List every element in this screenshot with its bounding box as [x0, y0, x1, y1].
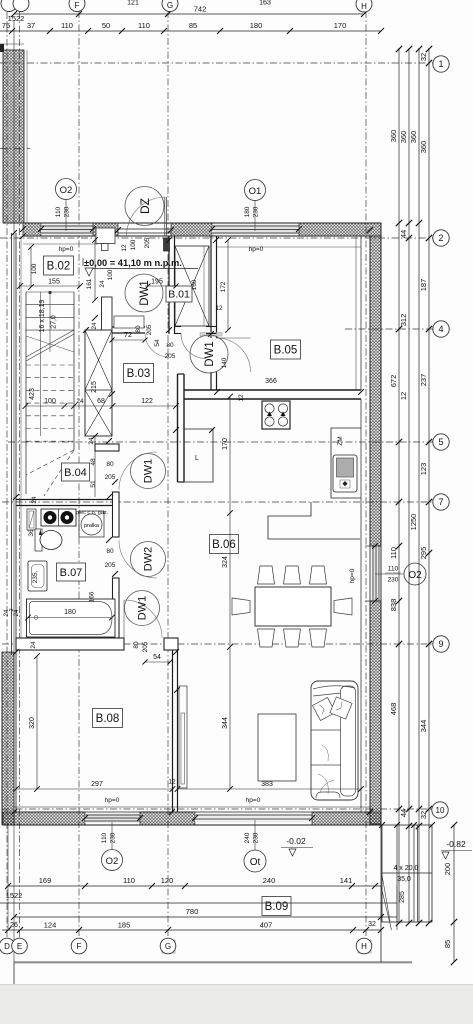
window label O2 top-left — [56, 179, 77, 200]
svg-text:320: 320 — [29, 717, 36, 729]
svg-text:H: H — [361, 942, 367, 951]
svg-text:68: 68 — [97, 398, 105, 405]
svg-text:120: 120 — [161, 876, 174, 885]
svg-text:B.01: B.01 — [168, 289, 190, 301]
room label B.09 — [262, 897, 291, 916]
grid circle 7 — [433, 494, 449, 510]
svg-text:344: 344 — [222, 717, 229, 729]
svg-text:360: 360 — [409, 131, 418, 144]
grid circle 5 — [433, 434, 449, 450]
svg-text:180: 180 — [244, 206, 251, 217]
svg-text:407: 407 — [260, 921, 273, 930]
svg-text:124: 124 — [44, 921, 57, 930]
grid circle 9 — [433, 636, 449, 652]
svg-text:205: 205 — [165, 353, 176, 360]
svg-text:185: 185 — [118, 921, 131, 930]
kitchen counter left L — [184, 429, 213, 482]
dim 161 vertical near entrance — [94, 240, 96, 300]
sofa seat divider 2 — [311, 764, 341, 766]
svg-text:51: 51 — [90, 480, 97, 488]
washing machine pralka — [79, 511, 104, 537]
kitchen stove — [262, 401, 290, 429]
svg-text:1250: 1250 — [409, 514, 418, 531]
dim 320 B.08 vertical — [36, 656, 38, 789]
grid circle D bottom — [0, 938, 15, 954]
bottom dim 780 row — [14, 916, 397, 918]
svg-text:G: G — [165, 942, 171, 951]
wall B.04-B.07 / B.06 vertical piece 1 — [113, 492, 120, 537]
grid line D vertical — [6, 12, 8, 938]
sofa back cushion along wall — [341, 686, 356, 796]
right dimension line c — [418, 48, 420, 923]
coffee table — [258, 714, 296, 781]
wall junction tick marks — [38, 226, 44, 232]
svg-text:2: 2 — [438, 233, 443, 243]
svg-text:4: 4 — [438, 324, 443, 334]
dim 344 living vertical — [229, 397, 231, 790]
staircase side rails — [25, 292, 27, 494]
window sill line B.02 — [23, 243, 98, 245]
top wall hatch segment 2 — [93, 223, 118, 236]
door panel wardrobe at B.06 side — [179, 686, 187, 788]
staircase dashed rays in B.04 — [26, 450, 74, 475]
svg-text:hp=0: hp=0 — [249, 246, 264, 253]
svg-text:O2: O2 — [106, 856, 119, 867]
svg-text:110: 110 — [389, 547, 398, 559]
svg-text:24: 24 — [14, 609, 20, 616]
drawing frame bottom edge — [14, 961, 412, 963]
svg-text:DW1: DW1 — [143, 459, 155, 483]
bottom dim chain row 1 — [8, 885, 381, 887]
svg-text:48: 48 — [90, 458, 97, 466]
svg-text:170: 170 — [334, 21, 347, 30]
room label B.06 — [210, 535, 239, 554]
grid circle 10 — [432, 802, 448, 818]
svg-text:F: F — [75, 1, 80, 10]
right dim slashes at grid rows — [396, 220, 402, 226]
grid line G vertical — [167, 11, 169, 938]
door label DW1 B.05 — [190, 335, 228, 373]
svg-text:360: 360 — [389, 130, 398, 143]
grid line 9 horizontal — [2, 643, 433, 645]
door niche at B.02/B.03 — [114, 316, 144, 328]
top wall hatch segment 3 — [171, 223, 212, 236]
door arc DW1 into B.04 — [119, 452, 157, 490]
dim 383 living bottom — [178, 788, 362, 790]
svg-text:37: 37 — [27, 21, 35, 30]
sofa seat creases — [318, 745, 334, 794]
svg-text:E: E — [17, 942, 22, 951]
dining chair bottom 3 — [310, 629, 327, 647]
svg-text:122: 122 — [141, 398, 153, 405]
left edge tick mark — [0, 44, 4, 52]
window label O2 right — [404, 563, 426, 585]
window O1 glazing — [212, 225, 299, 235]
door arc DW1 into B.05 — [217, 338, 251, 372]
long extent line at party wall — [13, 20, 15, 962]
svg-text:423: 423 — [29, 388, 36, 400]
grid circle H bottom — [358, 940, 371, 953]
svg-text:155: 155 — [48, 279, 60, 286]
chimney shaft cross lower — [85, 390, 112, 436]
svg-text:5: 5 — [438, 437, 443, 447]
steps top dim ticks near grid 10 — [394, 822, 400, 828]
bottom exterior wall hatch 3 — [312, 812, 381, 825]
svg-text:230: 230 — [110, 832, 117, 843]
svg-text:32: 32 — [419, 53, 428, 61]
svg-text:180: 180 — [250, 21, 263, 30]
corridor/kitchen wall vertical — [177, 374, 179, 482]
svg-text:DW1: DW1 — [139, 280, 151, 306]
svg-text:44: 44 — [399, 809, 408, 817]
svg-text:54: 54 — [153, 654, 161, 661]
dim 172 B.01 — [227, 240, 229, 330]
staircase treads upper flight — [26, 292, 74, 330]
right wall outer face — [380, 223, 382, 825]
window label Ot bottom — [244, 850, 266, 872]
svg-text:166: 166 — [89, 591, 96, 602]
svg-text:235,: 235, — [32, 570, 39, 583]
wall B.07/B.08 horizontal west — [16, 638, 124, 650]
svg-text:230: 230 — [253, 832, 260, 843]
svg-text:26: 26 — [10, 922, 18, 929]
right vertical line for bottom rows — [396, 886, 398, 930]
svg-text:10: 10 — [436, 806, 445, 815]
wall B.04/B.07 horizontal — [16, 499, 112, 501]
sofa cushion 1 — [313, 698, 336, 721]
grid line 1 horizontal — [0, 62, 433, 64]
svg-text:75: 75 — [2, 21, 10, 30]
dim 72 corridor — [112, 339, 145, 341]
svg-text:100: 100 — [130, 239, 137, 250]
grid line 5 horizontal — [8, 441, 433, 443]
room label B.03 — [124, 364, 154, 383]
svg-text:80: 80 — [166, 342, 174, 349]
top dimension chain row — [0, 30, 381, 32]
svg-text:1: 1 — [438, 59, 443, 69]
grid circle 4 — [433, 321, 449, 337]
door leaf gray B.01 — [200, 333, 222, 337]
sofa armrest top edge — [311, 222, 313, 224]
entrance door DZ swing arc — [127, 197, 166, 236]
svg-text:121: 121 — [127, 0, 139, 7]
svg-text:80: 80 — [135, 325, 142, 333]
bottom wall inner faces — [14, 806, 370, 808]
door arc B.03 from hall — [145, 333, 169, 357]
window label O2 bottom — [102, 850, 123, 871]
top partial grid circle D — [1, 0, 17, 12]
door label DW1 hall — [125, 274, 163, 312]
svg-text:163: 163 — [259, 0, 271, 7]
window O2 top-left glazing — [41, 225, 93, 235]
bottom dim 1522 row — [0, 902, 397, 904]
svg-text:80: 80 — [133, 641, 140, 649]
svg-text:4 x 20,0: 4 x 20,0 — [394, 865, 419, 872]
wall stub above shaft — [102, 297, 113, 330]
door arc DW2 into B.07 — [119, 540, 157, 578]
chimney shaft box — [85, 330, 112, 436]
grid circle G bottom — [162, 940, 175, 953]
svg-text:80: 80 — [106, 548, 114, 555]
svg-text:169: 169 — [39, 876, 52, 885]
grid line 10 horizontal — [2, 808, 433, 810]
wall B.01 bottom with door opening — [175, 326, 182, 328]
gray footer strip — [0, 984, 473, 1024]
svg-text:110: 110 — [61, 21, 73, 30]
wall B.01/B.05 upper — [210, 236, 212, 338]
svg-text:16 x 18,19: 16 x 18,19 — [39, 300, 46, 333]
right wall room-side lining — [360, 236, 362, 390]
svg-text:hp=0: hp=0 — [246, 797, 261, 804]
sofa bottom armrest — [316, 792, 340, 798]
svg-text:DZ: DZ — [138, 198, 152, 214]
svg-text:54: 54 — [154, 339, 161, 347]
svg-text:32: 32 — [419, 811, 428, 819]
wardrobe B.01 cross box — [175, 246, 209, 326]
diagonal connector bottom-right dims — [381, 886, 392, 930]
svg-text:9: 9 — [438, 639, 443, 649]
dim chain corridor B.03 y406 — [26, 405, 177, 407]
dim B.02 width 155 — [20, 285, 80, 287]
svg-text:12: 12 — [168, 779, 176, 786]
svg-text:205: 205 — [142, 641, 149, 652]
entrance door label DZ — [125, 187, 164, 226]
bottom dim chain row 26/124/185/407/32 — [2, 929, 381, 931]
wall hall/B.01 — [168, 236, 170, 334]
svg-text:B.02: B.02 — [47, 261, 71, 273]
svg-text:hp=0: hp=0 — [59, 246, 74, 253]
right outer dim line 200/85 — [453, 825, 455, 962]
dining chair top 3 — [310, 566, 327, 584]
svg-text:-0.82: -0.82 — [446, 839, 466, 849]
staircase treads lower flight dashed — [26, 365, 74, 441]
room label B.07 — [57, 563, 86, 581]
svg-text:85: 85 — [189, 21, 197, 30]
kitchen counter right along wall — [331, 428, 361, 498]
washbasin — [28, 561, 47, 591]
svg-text:DW2: DW2 — [143, 547, 155, 571]
svg-text:285: 285 — [399, 891, 406, 903]
grid circle 1 — [433, 56, 449, 72]
dining chair bottom 2 — [284, 629, 301, 647]
door swing arrow marker — [39, 529, 42, 535]
exterior steps tread lines — [396, 825, 398, 922]
svg-text:140: 140 — [221, 357, 228, 368]
svg-text:110: 110 — [55, 206, 62, 217]
svg-text:141: 141 — [340, 876, 353, 885]
toilet — [35, 529, 42, 551]
door arc from B.01 — [181, 334, 206, 359]
svg-text:B.07: B.07 — [60, 567, 83, 579]
right dimension line d — [428, 48, 430, 923]
grid line E vertical — [19, 12, 21, 938]
svg-text:230: 230 — [64, 206, 71, 217]
grid circle E bottom — [12, 938, 28, 954]
right exterior wall hatch upper — [370, 236, 381, 546]
svg-text:838: 838 — [389, 599, 398, 612]
gas boiler unit piec c.o. gaz — [41, 509, 76, 526]
svg-text:200: 200 — [443, 863, 452, 876]
right wall inner face — [369, 236, 371, 824]
wall stub B.04 east top — [95, 444, 119, 451]
svg-text:F: F — [77, 942, 82, 951]
grid line 2 horizontal — [0, 237, 433, 239]
terrace door Ot glazing — [195, 814, 312, 823]
staircase secondary diagonal — [26, 336, 74, 352]
window O2 right glazing — [372, 546, 380, 601]
svg-text:24: 24 — [91, 322, 98, 330]
svg-text:36: 36 — [28, 529, 35, 537]
neighbour party wall hatched top-left — [3, 50, 24, 223]
dining table — [255, 587, 331, 626]
svg-text:172: 172 — [220, 281, 227, 292]
level marker 0.00 — [85, 268, 93, 276]
kitchen wall under B.05 — [184, 389, 361, 391]
svg-text:-0.02: -0.02 — [286, 836, 306, 846]
top dimension row 742 — [14, 13, 364, 15]
svg-text:DW1: DW1 — [204, 341, 216, 367]
svg-text:110: 110 — [101, 832, 108, 843]
svg-text:O2: O2 — [60, 185, 73, 196]
svg-text:O2: O2 — [408, 570, 422, 581]
svg-text:205: 205 — [146, 324, 153, 335]
svg-text:240: 240 — [263, 876, 276, 885]
kitchen peninsula outline — [268, 502, 360, 539]
svg-text:383: 383 — [261, 781, 273, 788]
svg-text:G: G — [167, 1, 173, 10]
svg-text:24: 24 — [30, 641, 37, 649]
svg-text:187: 187 — [419, 279, 428, 292]
svg-text:240: 240 — [244, 832, 251, 843]
dining chair left — [232, 598, 250, 615]
svg-text:B.05: B.05 — [274, 345, 298, 357]
wall B.02 bottom / B.03 top — [110, 326, 145, 328]
window sill line B.05 — [217, 246, 361, 248]
terrace right edge line — [380, 825, 382, 962]
room label B.02 — [44, 256, 74, 275]
wall B.07/B.08 horizontal east piece — [164, 638, 178, 650]
svg-text:312: 312 — [399, 314, 408, 327]
svg-text:205: 205 — [105, 562, 116, 569]
svg-text:12: 12 — [238, 394, 245, 402]
svg-text:295: 295 — [419, 547, 428, 560]
svg-text:B.03: B.03 — [127, 368, 151, 380]
svg-text:85: 85 — [443, 940, 452, 948]
svg-text:24: 24 — [76, 398, 84, 405]
grid circle F bottom — [71, 938, 87, 954]
svg-text:672: 672 — [389, 375, 398, 388]
room label B.01 — [166, 286, 192, 302]
sofa seat divider 1 — [311, 729, 341, 731]
svg-text:123: 123 — [419, 463, 428, 476]
door label DW1 B.08 — [125, 591, 160, 626]
window O2 bottom glazing — [85, 814, 140, 823]
dining chair bottom 1 — [258, 629, 275, 647]
door label DW2 B.07 — [131, 542, 166, 577]
top wall hatch segment 1 — [23, 223, 41, 236]
sofa outline — [311, 681, 358, 800]
svg-text:110: 110 — [388, 566, 399, 573]
left vertical line for bottom rows — [7, 825, 9, 930]
svg-text:468: 468 — [389, 703, 398, 716]
sofa top backrest curve — [313, 686, 355, 689]
chimney shaft cross upper — [85, 330, 112, 390]
left exterior wall hatch lower — [2, 652, 14, 825]
svg-text:360: 360 — [419, 141, 428, 154]
sofa cushion 2 — [330, 697, 352, 719]
dining chair top 2 — [284, 566, 301, 584]
svg-text:195: 195 — [151, 279, 163, 286]
entrance door DZ leaf — [164, 197, 166, 236]
bottom wall outer face — [3, 824, 381, 826]
top partial grid circle F — [69, 0, 85, 12]
window label O1 top — [245, 180, 266, 201]
bathtub — [27, 599, 116, 637]
svg-text:hp=0: hp=0 — [349, 568, 356, 583]
svg-text:324: 324 — [222, 556, 229, 568]
staircase cut break double diagonal — [26, 330, 74, 357]
svg-text:hp=0: hp=0 — [105, 797, 120, 804]
right dimension line a — [398, 48, 400, 923]
top partial grid circle E — [13, 0, 29, 12]
dim chain B.04 24/48/51 — [94, 436, 96, 497]
grid line 4 horizontal — [345, 328, 433, 330]
exterior steps block — [382, 825, 432, 922]
svg-text:B.04: B.04 — [64, 467, 87, 479]
wall B.04-B.07 / B.06 vertical piece 2 — [113, 578, 120, 638]
svg-text:161: 161 — [86, 278, 93, 289]
dining chair right — [334, 598, 352, 615]
exterior steps landing line — [382, 872, 432, 874]
svg-text:237: 237 — [419, 374, 428, 387]
svg-text:12: 12 — [215, 305, 223, 312]
top partial grid circle H — [356, 0, 372, 12]
dim 297 B.08 bottom — [16, 788, 173, 790]
svg-text:24: 24 — [88, 437, 95, 445]
entrance jamb right — [164, 238, 170, 251]
svg-text:230: 230 — [253, 206, 260, 217]
kitchen sink — [333, 455, 357, 492]
svg-text:O1: O1 — [249, 186, 262, 197]
svg-text:297: 297 — [91, 781, 103, 788]
svg-text:780: 780 — [186, 907, 199, 916]
grid circle 2 — [433, 230, 449, 246]
svg-text:72: 72 — [124, 332, 132, 339]
svg-text:ZM: ZM — [337, 436, 344, 445]
neighbour wall inner lines — [26, 50, 28, 223]
door label DW1 B.04 — [131, 454, 166, 489]
bottom exterior wall hatch 2 — [140, 812, 195, 825]
svg-text:B.06: B.06 — [212, 539, 236, 551]
svg-text:pralka: pralka — [84, 523, 100, 529]
svg-text:360: 360 — [399, 131, 408, 144]
wall B.01/B.05 lower segment below door — [210, 372, 212, 390]
svg-text:205: 205 — [105, 474, 116, 481]
svg-text:35,0: 35,0 — [397, 876, 411, 883]
svg-text:27,0: 27,0 — [51, 315, 58, 329]
bottom exterior wall hatch 1 — [3, 812, 85, 825]
svg-text:DW1: DW1 — [137, 596, 149, 620]
left party wall double line — [11, 233, 13, 655]
svg-text:L: L — [195, 455, 199, 462]
svg-text:742: 742 — [194, 5, 207, 14]
ironing cabinet small — [27, 509, 36, 530]
top partial grid circle G — [162, 0, 178, 12]
svg-text:H: H — [361, 2, 367, 11]
svg-text:100: 100 — [44, 398, 56, 405]
svg-text:B.08: B.08 — [96, 713, 120, 725]
dim 100 left vertical — [30, 247, 32, 287]
